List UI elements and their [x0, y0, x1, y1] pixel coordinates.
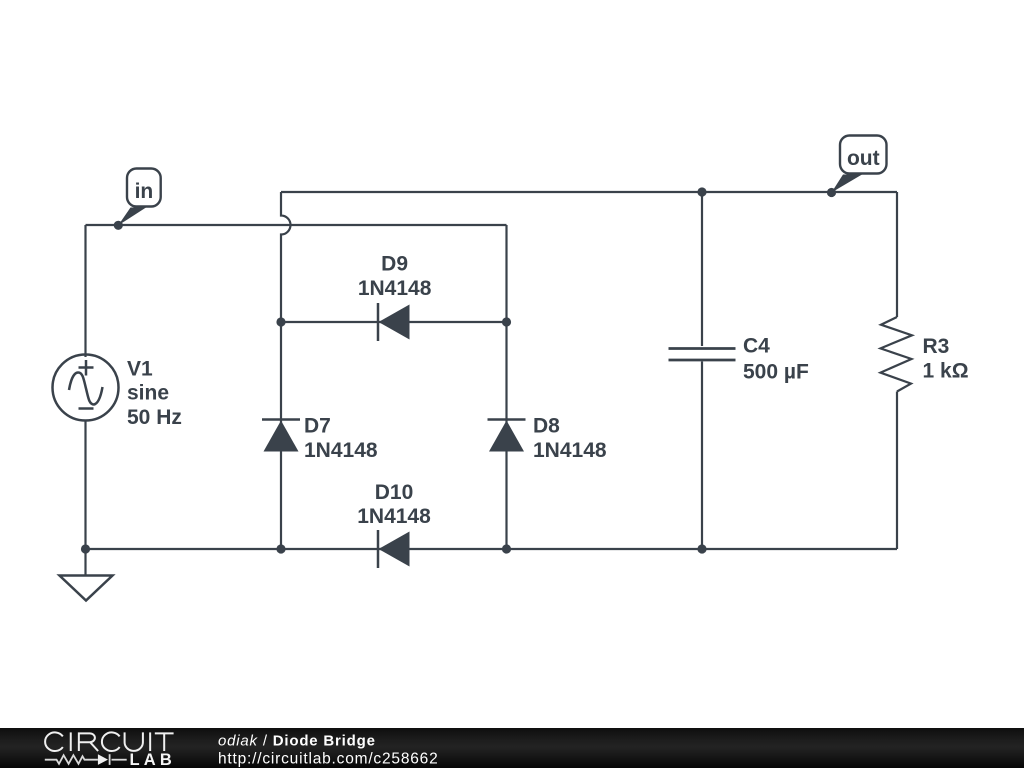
logo resistor-diode symbol [45, 754, 127, 765]
svg-text:http://circuitlab.com/c258662: http://circuitlab.com/c258662 [218, 750, 439, 767]
out label pointer tail [832, 175, 863, 193]
wire D9 horizontal [281, 321, 507, 323]
diode D7 [262, 420, 300, 452]
D10 cathode bar [377, 530, 380, 568]
in label pointer tail [118, 208, 146, 226]
node label "out" [832, 136, 887, 193]
in label box and text [127, 169, 161, 207]
D8 cathode bar [488, 418, 526, 421]
D9 triangle [379, 305, 410, 340]
footer bar [0, 728, 1024, 768]
node label "in" [118, 169, 160, 226]
junction D7 bottom node [276, 544, 285, 553]
junction node out [827, 188, 836, 197]
wire in horizontal [86, 224, 507, 226]
capacitor C4 [669, 349, 736, 361]
wire ground stem [84, 549, 86, 575]
wire top rail [281, 191, 897, 193]
out label box and text [840, 136, 887, 174]
voltage source V1 [53, 355, 119, 421]
D7 cathode bar [262, 418, 300, 421]
wire left bridge column with hop over in-wire [281, 192, 291, 549]
D10 triangle [379, 532, 410, 567]
CircuitLab logo "CIRCUIT" [45, 732, 173, 751]
D9 cathode bar [377, 303, 380, 341]
diode D8 [488, 420, 526, 452]
D8 triangle [489, 421, 524, 452]
junction node in [114, 221, 123, 230]
svg-text:odiak / Diode Bridge: odiak / Diode Bridge [218, 732, 376, 749]
wire right bridge column (D8) [505, 225, 507, 549]
resistor R3 [881, 317, 913, 392]
junction ground node [81, 544, 90, 553]
wire V1 bottom to ground node [84, 421, 86, 549]
svg-text:LAB: LAB [130, 751, 177, 768]
wire R3 column [896, 192, 898, 549]
junction C4 top node [697, 187, 706, 196]
C4 bottom plate [669, 359, 736, 362]
D7 triangle [264, 421, 299, 452]
junction D8 bottom node [502, 544, 511, 553]
wire C4 column [701, 192, 703, 549]
wire bottom rail [86, 548, 898, 550]
C4 top plate [669, 347, 736, 350]
junction D8/D9 node [502, 317, 511, 326]
ground [60, 576, 113, 601]
junction D7/D9 anode node [276, 317, 285, 326]
diode D10 [378, 530, 410, 568]
junction C4 bottom node [697, 544, 706, 553]
wire V1 top to in node [84, 225, 86, 357]
diode D9 [378, 303, 410, 341]
